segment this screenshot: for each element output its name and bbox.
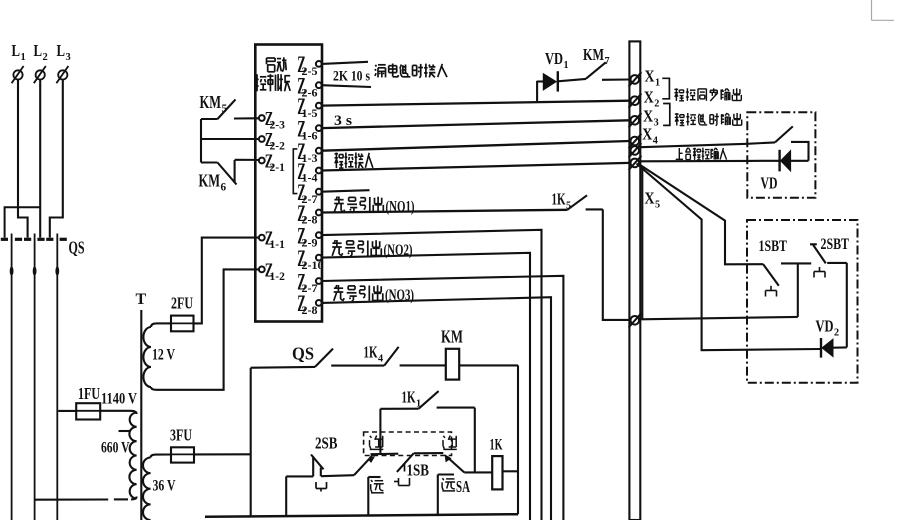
startup control board box U1	[255, 45, 322, 322]
button 2SBT (NC)	[810, 244, 847, 263]
svg-text:1: 1	[21, 52, 26, 63]
svg-text:660 V: 660 V	[101, 440, 130, 457]
node X1 label	[645, 67, 661, 89]
svg-text:KM: KM	[200, 92, 222, 112]
wire strip to remote box top	[640, 142, 775, 147]
svg-text:1K: 1K	[402, 388, 416, 407]
svg-text:KM: KM	[199, 171, 221, 191]
svg-text:1K: 1K	[552, 190, 566, 209]
wire Z2-10 drop	[322, 253, 530, 520]
label pilot NO3	[334, 285, 414, 304]
svg-text:KM: KM	[441, 327, 463, 347]
wire Z2-9 drop	[322, 230, 542, 520]
transformer T label	[136, 291, 147, 308]
button 1SB operator	[394, 478, 410, 486]
svg-text:(NO1): (NO1)	[386, 199, 415, 216]
button 2SB label	[315, 434, 338, 453]
label program-control access	[335, 153, 373, 169]
QS blade wire	[33, 234, 37, 521]
contact 1K1 label	[402, 388, 422, 410]
bracket X1-X2 group	[662, 78, 669, 99]
fuse 2FU	[171, 316, 194, 332]
wire 12V bottom lead to Z1-2	[151, 269, 259, 389]
svg-text:X: X	[643, 107, 653, 126]
contact 1K5	[567, 195, 603, 210]
label 3 s	[334, 113, 352, 129]
button 1SBT	[763, 263, 811, 285]
wire L3 drop	[50, 80, 63, 238]
wire near-1 fixed lead	[371, 453, 399, 456]
terminal Z2-7 right y=281.0	[297, 269, 321, 295]
button 2SBT label	[821, 236, 850, 253]
button 1SBT label	[759, 238, 788, 255]
svg-text:L: L	[12, 41, 21, 60]
node X3 label	[643, 107, 659, 129]
value label 1140 V	[101, 391, 137, 408]
terminal circle L3	[56, 66, 68, 83]
QS fixed contact tick	[15, 238, 22, 241]
svg-text:3: 3	[66, 52, 71, 63]
svg-text:36 V: 36 V	[153, 478, 176, 495]
svg-text:VD: VD	[761, 174, 778, 193]
contact 1K5 label	[552, 190, 572, 212]
terminal Z2-8 right y=302.9	[297, 291, 321, 317]
wire 36V top lead	[151, 455, 171, 458]
svg-text:12 V: 12 V	[152, 347, 175, 364]
bracket grouping Z1-4/Z2-7	[293, 149, 297, 194]
wire Z1-3 to X4	[322, 141, 630, 151]
wire Z2-5 annotation lead	[322, 62, 368, 64]
fuse 1FU	[58, 403, 100, 419]
wire primary tap stub	[119, 430, 131, 432]
wire 1K5 to X5 terminal	[603, 209, 630, 320]
wire 1K1 branch riser	[379, 409, 381, 454]
QS fixed contact tick	[1, 238, 8, 241]
label leakage-delay access	[375, 64, 447, 78]
svg-text:SA: SA	[456, 477, 470, 496]
svg-text:1K: 1K	[490, 437, 503, 454]
coil KM label	[441, 327, 463, 347]
wire 1K1 right drop	[474, 408, 476, 473]
wire 12V top lead	[151, 323, 171, 327]
svg-text:X: X	[645, 189, 655, 208]
terminal Z2-10 right y=257.6	[297, 246, 323, 272]
coil 1K label	[490, 437, 503, 454]
bracket far-1	[368, 477, 380, 515]
wire KM5/KM6 left riser	[200, 119, 202, 163]
wire near-2 to 1K coil	[464, 471, 492, 473]
svg-text:X: X	[645, 67, 655, 86]
svg-text:X: X	[642, 125, 652, 144]
button 1SB	[397, 453, 414, 472]
svg-text:1-2: 1-2	[270, 271, 286, 283]
wire 3FU to control feed riser	[194, 453, 251, 455]
wire Z2-8b drop	[322, 297, 551, 520]
contact KM7 blade	[586, 62, 606, 78]
selector SA near-2 contact	[445, 455, 464, 472]
wire VD1 tap riser	[536, 81, 538, 102]
svg-text:QS: QS	[292, 344, 314, 364]
strip terminal y=120.3	[629, 113, 642, 127]
winding 12V secondary	[143, 327, 151, 387]
svg-text:1: 1	[564, 60, 569, 71]
wire Z2-7 stub	[322, 190, 370, 192]
svg-text:1-1: 1-1	[270, 239, 286, 251]
bracket far-2	[438, 475, 454, 515]
switch QS aux	[251, 349, 385, 368]
wire Z1-5 to X2	[322, 101, 630, 106]
value label 12 V	[152, 347, 175, 364]
terminal Z2-6 right y=85.2	[297, 74, 321, 100]
switch QS label	[69, 238, 85, 258]
button 1SBT operator	[766, 286, 777, 297]
svg-text:2SBT: 2SBT	[821, 236, 850, 253]
QS fixed contact tick	[46, 238, 53, 241]
node X4 label	[642, 125, 658, 147]
svg-text:QS: QS	[69, 238, 85, 258]
svg-text:5: 5	[655, 199, 660, 210]
fuse 3FU	[171, 447, 194, 462]
svg-text:2SB: 2SB	[315, 434, 338, 453]
QS blade wire	[10, 234, 14, 521]
terminal circle L2	[34, 66, 46, 83]
coil 1K	[492, 456, 502, 489]
svg-text:L: L	[34, 41, 43, 60]
label near-1	[370, 436, 384, 450]
svg-text:X: X	[644, 88, 654, 107]
wire KM to right rail	[459, 365, 518, 514]
svg-text:2-8: 2-8	[302, 303, 318, 317]
wire diag to VD2 branch	[637, 164, 821, 351]
diode VD2 label	[816, 317, 840, 339]
wire QS upper bus	[5, 207, 41, 237]
label near-2	[443, 436, 457, 450]
svg-text:VD: VD	[816, 317, 834, 336]
terminal Z1-1 left y=237.6	[259, 228, 285, 252]
svg-text:1140 V: 1140 V	[101, 391, 137, 408]
wire bottom rail	[205, 514, 518, 517]
svg-text:3FU: 3FU	[170, 426, 192, 445]
wire KM7 to X1	[602, 78, 629, 80]
terminal Z1-3 right y=150.7	[297, 139, 321, 165]
selector SA near-1 contact	[369, 454, 374, 462]
selector SA label	[456, 477, 470, 496]
wire remote contact to VD	[791, 142, 809, 161]
svg-text:7: 7	[605, 56, 610, 67]
terminal Z1-5 right y=105.6	[297, 94, 321, 120]
wire Z2-6 annotation lead	[322, 85, 371, 87]
terminal Z2-2 left y=139.0	[259, 129, 285, 153]
label delay output	[675, 113, 742, 126]
button 2SB (NC)	[311, 455, 324, 477]
wire Z1-4 to X6	[322, 163, 630, 171]
label upper program input	[676, 148, 727, 160]
svg-text:T: T	[136, 291, 147, 308]
contact 1K4	[384, 347, 446, 366]
fuse 3FU label	[170, 426, 192, 445]
strip terminal y=162.9	[629, 156, 642, 170]
box pendant dash-dot	[747, 220, 858, 383]
wire L2 drop	[39, 80, 41, 238]
terminal circle L1	[12, 66, 24, 83]
svg-text:1K: 1K	[364, 343, 378, 362]
svg-text:4: 4	[378, 353, 383, 364]
node L2 label	[34, 41, 48, 63]
svg-text:2: 2	[43, 52, 48, 63]
QS fixed contact tick	[24, 238, 31, 241]
strip terminal y=141.0	[629, 134, 642, 148]
button 2SBT operator	[814, 267, 825, 278]
svg-text:1FU: 1FU	[78, 384, 100, 403]
wire T6 drop	[641, 168, 643, 319]
terminal Z2-8 right y=212.5	[297, 201, 321, 227]
wire Z1-6 to X3	[322, 120, 630, 128]
terminal Z2-9 right y=235.1	[297, 223, 321, 249]
svg-text:1SBT: 1SBT	[759, 238, 788, 255]
fuse 2FU label	[171, 294, 193, 313]
contact KM6 label	[199, 171, 227, 194]
button 2SB operator	[316, 482, 327, 492]
winding 660V primary	[129, 413, 136, 499]
strip terminal y=79.4	[629, 72, 642, 86]
switch QS aux label	[292, 344, 314, 364]
wire 2SBT to VD2	[833, 263, 847, 348]
wire 2FU to Z1-1	[194, 238, 259, 324]
diode VD2	[821, 338, 833, 358]
node L1 label	[12, 41, 26, 63]
diode VD1 label	[545, 49, 569, 71]
label sync output	[674, 88, 741, 101]
transformer core	[140, 310, 142, 520]
terminal Z2-7 right y=191.7	[297, 180, 321, 206]
value label 660 V	[101, 440, 130, 457]
label 2K 10 s	[333, 69, 370, 85]
wire L1 drop	[18, 80, 28, 238]
wire 1SB lead	[414, 452, 444, 454]
wire 2SB branch riser	[286, 476, 313, 515]
label pilot NO1	[334, 197, 414, 216]
terminal Z2-5 right y=63.9	[297, 52, 321, 78]
terminal Z1-6 right y=128.1	[297, 116, 321, 142]
node L3 label	[57, 41, 71, 63]
contact KM5	[201, 99, 259, 119]
label kongzhiban	[255, 74, 290, 91]
svg-text:L: L	[57, 41, 66, 60]
fuse 1FU label	[78, 384, 100, 403]
svg-text:2: 2	[654, 98, 659, 109]
svg-text:6: 6	[221, 182, 227, 194]
svg-text:3: 3	[654, 117, 659, 128]
node X2 label	[644, 88, 660, 110]
contact remote blade	[775, 126, 793, 142]
wire X5 to pushbutton box	[640, 263, 797, 319]
svg-text:1: 1	[655, 77, 660, 88]
label far-2	[442, 478, 455, 491]
button 1SB label	[407, 461, 430, 480]
svg-text:2-1: 2-1	[270, 162, 286, 174]
wire 2SB to selector	[321, 459, 369, 477]
strip terminal y=100.7	[629, 94, 642, 108]
scan corner artifact	[872, 0, 895, 20]
contact 1K4 label	[364, 343, 384, 365]
QS fixed contact tick	[60, 238, 67, 241]
box linkage dashed	[364, 432, 452, 456]
wire 1K to right rail	[503, 470, 519, 472]
wire 1FU to primary top	[100, 411, 136, 414]
wire Z2-2 stub	[201, 138, 259, 140]
strip terminal y=320.3	[629, 313, 642, 327]
terminal Z1-2 left y=269.4	[259, 259, 285, 283]
wire primary bottom lead	[35, 497, 137, 500]
wire Z2-7b drop	[322, 276, 564, 520]
contact KM7 label	[583, 45, 610, 67]
box remote program dash-dot	[747, 112, 815, 197]
diode VD label	[761, 174, 778, 193]
diode VD1	[537, 71, 586, 91]
svg-text:4: 4	[653, 135, 658, 146]
label qidong	[267, 57, 287, 72]
value label 36 V	[153, 478, 176, 495]
wire diag to 1SBT branch	[640, 165, 763, 264]
label pilot NO2	[332, 240, 412, 259]
diode VD	[780, 150, 809, 172]
terminal Z1-4 right y=170.5	[297, 159, 321, 185]
svg-text:1SB: 1SB	[407, 461, 430, 480]
node X5 label	[645, 189, 661, 211]
QS blade wire	[55, 234, 59, 521]
svg-text:2FU: 2FU	[171, 294, 193, 313]
terminal strip X	[629, 41, 640, 520]
contact KM6 (NC)	[201, 160, 259, 185]
contact KM5 label	[200, 92, 228, 115]
bracket X2-X3 group	[663, 104, 670, 126]
QS fixed contact tick	[37, 238, 44, 241]
svg-text:2: 2	[834, 327, 839, 338]
terminal Z2-1 left y=160.5	[259, 151, 285, 175]
svg-text:KM: KM	[583, 45, 604, 64]
wire control feed riser	[250, 368, 252, 517]
contact 1K1	[380, 391, 474, 409]
svg-text:VD: VD	[545, 49, 563, 68]
terminal Z2-3 left y=118.0	[259, 108, 285, 132]
label far-1	[371, 480, 384, 493]
coil KM	[446, 349, 459, 380]
winding 36V secondary	[143, 458, 151, 521]
wire Z2-8 to 1K5	[322, 210, 568, 213]
wire strip to VD diode	[640, 160, 779, 163]
strip terminal y=150.4	[629, 143, 642, 157]
svg-text:2K 10 s: 2K 10 s	[333, 69, 370, 85]
